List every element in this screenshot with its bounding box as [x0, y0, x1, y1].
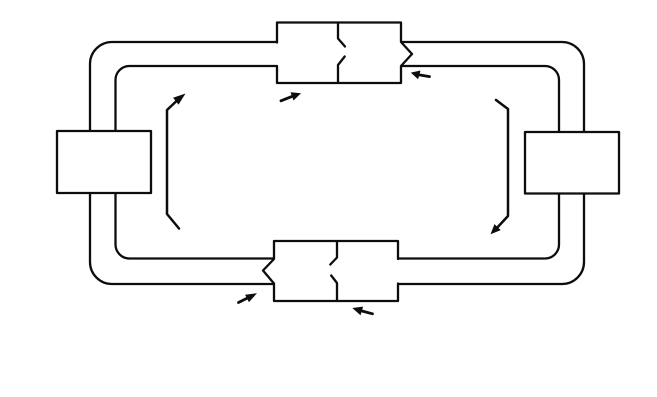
arrow long right down: [496, 100, 508, 227]
coupler top divider gap: [338, 23, 345, 83]
arrow small bottom-mid: [362, 311, 373, 314]
arrow small top-left: [281, 96, 292, 100]
box left station: [57, 131, 151, 193]
wire inner loop: [116, 66, 560, 259]
coupler top block: [277, 23, 412, 84]
arrow small top-right: [419, 75, 429, 77]
arrowhead small top-left: [291, 92, 302, 100]
arrowhead small top-right: [411, 71, 421, 80]
arrow small bottom-left: [239, 298, 249, 303]
arrow long left up: [167, 102, 179, 229]
arrowhead long right: [491, 224, 501, 234]
box right station: [525, 132, 619, 194]
coupler bottom divider gap: [330, 242, 337, 302]
arrowhead small bottom-left: [245, 293, 257, 302]
arrowhead small bottom-mid: [352, 307, 363, 316]
arrowhead long left: [173, 94, 185, 105]
coupler bottom block: [263, 241, 398, 301]
wire outer loop: [90, 42, 584, 284]
